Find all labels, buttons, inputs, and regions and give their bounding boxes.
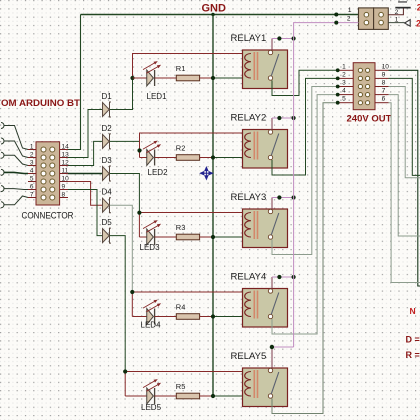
wire 240V OUT pin 8 [389, 87, 420, 178]
wire GND bus to RELAY3 coil bottom [213, 236, 250, 238]
wire GND rail [81, 14, 359, 16]
svg-text:11: 11 [62, 167, 69, 174]
svg-text:CONNECTOR: CONNECTOR [22, 211, 74, 221]
svg-text:LED3: LED3 [140, 243, 161, 252]
connector 240V OUT right pin 9 stub [375, 77, 389, 79]
wire D2 output to node 2 [110, 140, 140, 142]
connector J2 (2x2) right body [374, 8, 389, 30]
wire GND bus to RELAY4 coil bottom [213, 316, 250, 318]
wire RELAY1 NO contact to 240V OUT pin 1 [272, 70, 338, 95]
relay RELAY3 [231, 192, 288, 248]
junction RELAY1 common A [277, 36, 281, 40]
connector 240V OUT right pin 10 stub [375, 69, 389, 71]
svg-text:RELAY5: RELAY5 [231, 351, 267, 362]
svg-text:1: 1 [342, 63, 346, 70]
ground flag [395, 7, 410, 9]
wire LED2 to R2 [155, 157, 177, 159]
diode D5 [102, 218, 113, 243]
svg-text:R1: R1 [176, 64, 186, 73]
wire 240V OUT pin 9 [389, 78, 420, 175]
svg-text:RELAY1: RELAY1 [231, 33, 267, 44]
svg-text:6: 6 [382, 96, 386, 103]
wire LED4 to R4 [155, 316, 177, 318]
connector J1 left pin 1 stub [28, 149, 36, 151]
svg-text:5: 5 [30, 175, 34, 182]
svg-text:3: 3 [30, 159, 34, 166]
svg-text:D4: D4 [102, 188, 113, 197]
connector 240V OUT right pin 7 stub [375, 94, 389, 96]
wire pin 13 to D1 [68, 110, 102, 158]
LED LED1 [143, 61, 167, 101]
wire GND bus vertical [212, 15, 214, 397]
wire GND bus to RELAY2 coil bottom [213, 157, 250, 159]
wire pin 11 to D3 [68, 173, 102, 175]
wire node to LED2 [140, 157, 147, 159]
svg-text:LED4: LED4 [141, 321, 162, 330]
wire R3 to GND bus [200, 236, 213, 238]
relay RELAY4 [231, 272, 288, 328]
origin marker (blue cross) [200, 167, 212, 179]
wire R1 to GND bus [200, 77, 213, 79]
svg-text:N: N [410, 306, 416, 316]
junction RELAY2 common A [277, 116, 281, 120]
svg-text:9: 9 [62, 183, 66, 190]
svg-text:4: 4 [342, 88, 346, 95]
wire input hook 6 to connector [1, 202, 4, 208]
resistor R3 [176, 223, 200, 240]
svg-text:7: 7 [30, 191, 34, 198]
wire RELAY3 common to 240V bus [271, 198, 273, 210]
connector 240V OUT left pin 2 stub [338, 77, 354, 79]
wire D1 output to node 1 [110, 78, 133, 110]
connector 240V OUT left pin 1 stub [338, 69, 354, 71]
junction GND bus row 4 [211, 314, 215, 318]
junction GND bus row 2 [211, 155, 215, 159]
wire input hook 1 to connector [1, 123, 4, 129]
junction GND rail at J2 pin 1 [334, 13, 338, 17]
junction node 3 [137, 211, 141, 215]
junction RELAY5 common [270, 345, 274, 349]
svg-text:OM ARDUINO BT: OM ARDUINO BT [1, 98, 80, 109]
wire LED5 to R5 [155, 395, 177, 397]
diode D4 [102, 188, 113, 213]
connector J1 pin circles row 3 [41, 163, 46, 168]
svg-text:1: 1 [30, 143, 34, 150]
connector J2 (2x2) left body [359, 8, 374, 30]
svg-text:6: 6 [30, 183, 34, 190]
junction GND bus row 3 [211, 235, 215, 239]
connector J1 pin circles row 4 [41, 171, 46, 176]
junction GND bus row 5 [211, 394, 215, 398]
relay RELAY1 [231, 33, 288, 89]
connector 240V OUT body [353, 63, 375, 110]
wire RELAY5 NO contact to 240V OUT pin 5 [272, 103, 338, 414]
connector J1 left pin 7 stub [28, 197, 36, 199]
svg-text:R5: R5 [176, 382, 186, 391]
connector J1 right pin 11 stub [60, 173, 68, 175]
wire node 3 to RELAY3 coil top and LED3 [139, 213, 250, 238]
wire input hook 2 to connector [1, 138, 4, 144]
junction purple bus at J2 pin 2 [334, 21, 338, 25]
resistor R4 [176, 303, 200, 320]
junction GND bus row 1 [211, 76, 215, 80]
wire LED3 to R3 [155, 236, 177, 238]
connector J1 left pin 2 stub [28, 157, 36, 159]
junction pin 2 [336, 77, 340, 81]
wire node 2 to RELAY2 coil top [140, 133, 251, 158]
junction RELAY4 common on bus [292, 275, 296, 279]
svg-text:14: 14 [62, 143, 70, 150]
junction node 4 [130, 290, 134, 294]
wire RELAY4 NO contact to 240V OUT pin 4 [272, 95, 338, 334]
svg-text:R4: R4 [176, 303, 186, 312]
connector 240V OUT left pin 5 stub [338, 102, 354, 104]
wire pin 12 to D2 [68, 141, 102, 165]
wire GND bus to RELAY1 coil bottom [213, 77, 250, 79]
junction RELAY3 common A [277, 195, 281, 199]
svg-text:D1: D1 [102, 92, 113, 101]
connector J1 CONNECTOR body [36, 142, 60, 205]
svg-text:2: 2 [30, 151, 34, 158]
wire RELAY5 common to 240V bus [271, 347, 273, 368]
wire node 5 to RELAY5 coil top and LED5 [125, 372, 250, 397]
svg-text:GND: GND [202, 3, 227, 15]
svg-text:2: 2 [395, 9, 399, 16]
wire node 1 to RELAY1 coil top [133, 54, 251, 79]
junction node 2 [137, 148, 141, 152]
wire GND rail to connector pin 14 [36, 15, 81, 150]
svg-text:LED1: LED1 [147, 92, 168, 101]
connector J1 pin circles row 1 [41, 147, 46, 152]
wire RELAY1 common to 240V bus [271, 39, 273, 51]
wire input hook 3 to connector [1, 152, 4, 158]
wire R2 to GND bus [200, 157, 213, 159]
svg-text:R =: R = [406, 350, 420, 360]
LED LED2 [143, 141, 168, 177]
connector 240V OUT left pin 3 stub [338, 86, 354, 88]
wire RELAY2 NO contact to 240V OUT pin 2 [272, 78, 338, 175]
connector J1 left pin 4 stub [28, 173, 36, 175]
connector 240V OUT left pin 4 stub [338, 94, 354, 96]
svg-text:LED2: LED2 [148, 168, 169, 177]
connector J1 pin circles row 7 [41, 195, 46, 200]
connector 240V OUT right pin 6 stub [375, 102, 389, 104]
svg-text:24: 24 [416, 19, 420, 29]
svg-text:5: 5 [342, 96, 346, 103]
wire J2 pin 2 (purple) [336, 22, 358, 24]
connector J2 circles [364, 12, 369, 17]
svg-text:D3: D3 [102, 156, 113, 165]
wire node to LED3 [139, 236, 146, 238]
svg-text:1: 1 [395, 17, 399, 24]
wire node to LED5 [125, 395, 147, 397]
svg-text:R2: R2 [176, 144, 186, 153]
svg-text:LED5: LED5 [141, 403, 162, 412]
connector J1 right pin 12 stub [60, 165, 68, 167]
resistor R5 [176, 382, 200, 399]
svg-text:9: 9 [382, 71, 386, 78]
connector J1 right pin 10 stub [60, 181, 68, 183]
svg-text:3: 3 [342, 80, 346, 87]
svg-text:RELAY4: RELAY4 [231, 272, 267, 283]
connector 240V OUT circles row 5 [358, 101, 362, 105]
connector 240V OUT circles row 4 [358, 93, 362, 97]
diode D1 [102, 92, 113, 117]
connector J1 right pin 8 stub [60, 197, 68, 199]
junction RELAY1 common on bus [292, 36, 296, 40]
svg-text:10: 10 [62, 175, 70, 182]
svg-text:RELAY3: RELAY3 [231, 192, 267, 203]
connector J1 right pin 14 stub [60, 149, 68, 151]
wire 240V live bus (purple) [294, 23, 337, 347]
wire D3 output down [110, 174, 140, 213]
relay RELAY5 [231, 351, 288, 407]
wire D5 output down [110, 236, 125, 372]
svg-text:D2: D2 [102, 124, 113, 133]
svg-text:13: 13 [62, 151, 70, 158]
svg-text:D5: D5 [102, 218, 113, 227]
svg-text:R3: R3 [176, 223, 186, 232]
connector J1 right pin 13 stub [60, 157, 68, 159]
svg-text:240V OUT: 240V OUT [347, 114, 392, 125]
connector 240V OUT right pin 8 stub [375, 86, 389, 88]
wire J2 right pin 1 to input terminal [388, 22, 404, 24]
wire 240V OUT pin 7 [389, 95, 420, 236]
connector J1 left pin 3 stub [28, 165, 36, 167]
wire GND bus to RELAY5 coil bottom [213, 395, 250, 397]
diode D2 [102, 124, 113, 149]
connector 240V OUT circles row 3 [358, 84, 362, 88]
wire RELAY4 common to 240V bus [271, 277, 273, 289]
wire node to LED4 [132, 316, 146, 318]
junction RELAY3 common on bus [292, 195, 296, 199]
svg-text:D =: D = [406, 335, 420, 345]
connector J1 pin circles row 2 [41, 155, 46, 160]
connector J1 pin circles row 5 [41, 179, 46, 184]
wire 240V OUT pin 6 [389, 103, 420, 283]
junction node 1 [130, 76, 134, 80]
connector J1 right pin 9 stub [60, 189, 68, 191]
input terminal arrow [405, 20, 411, 27]
junction pin 5 [336, 101, 340, 105]
wire pin 9 to D5 [68, 190, 102, 236]
junction pin 1 [336, 68, 340, 72]
wire R5 to GND bus [200, 395, 213, 397]
relay RELAY2 [231, 113, 288, 169]
junction pin 4 [336, 93, 340, 97]
junction node 5 [123, 369, 127, 373]
connector J1 pin circles row 6 [41, 187, 46, 192]
LED LED5 [141, 379, 162, 412]
junction RELAY2 common on bus [292, 116, 296, 120]
wire RELAY3 NO contact to 240V OUT pin 3 [272, 87, 338, 255]
resistor R1 [176, 64, 200, 81]
diode D3 [102, 156, 113, 181]
wire LED1 to R1 [155, 77, 177, 79]
svg-text:RELAY2: RELAY2 [231, 113, 267, 124]
wire J2 right pin 2 to ground flag [388, 8, 403, 15]
svg-text:12: 12 [62, 159, 70, 166]
svg-text:10: 10 [382, 63, 390, 70]
connector 240V OUT circles row 2 [358, 76, 362, 80]
LED LED4 [141, 300, 162, 330]
wire input hook 4 to connector [1, 169, 4, 175]
wire input hook 5 to connector [1, 186, 4, 192]
svg-text:4: 4 [30, 167, 34, 174]
junction RELAY4 common A [277, 275, 281, 279]
connector J1 left pin 5 stub [28, 181, 36, 183]
LED LED3 [140, 220, 162, 252]
svg-text:7: 7 [382, 88, 386, 95]
wire node 4 to RELAY4 coil top and LED4 [132, 292, 250, 317]
svg-text:2: 2 [342, 71, 346, 78]
svg-text:1: 1 [348, 7, 352, 14]
wire R4 to GND bus [200, 316, 213, 318]
wire 240V OUT pin 10 [389, 70, 420, 286]
wire RELAY2 common to 240V bus [271, 118, 273, 130]
resistor R2 [176, 144, 200, 161]
svg-text:2: 2 [347, 16, 351, 23]
wire node to LED1 [133, 77, 147, 79]
junction pin 3 [336, 85, 340, 89]
wire D4 output down [110, 205, 133, 292]
connector J1 left pin 6 stub [28, 189, 36, 191]
wire pin 10 to D4 [68, 182, 102, 206]
junction GND rail / GND bus [211, 13, 214, 16]
svg-text:8: 8 [382, 80, 386, 87]
connector 240V OUT circles row 1 [358, 68, 362, 72]
svg-text:8: 8 [62, 191, 66, 198]
